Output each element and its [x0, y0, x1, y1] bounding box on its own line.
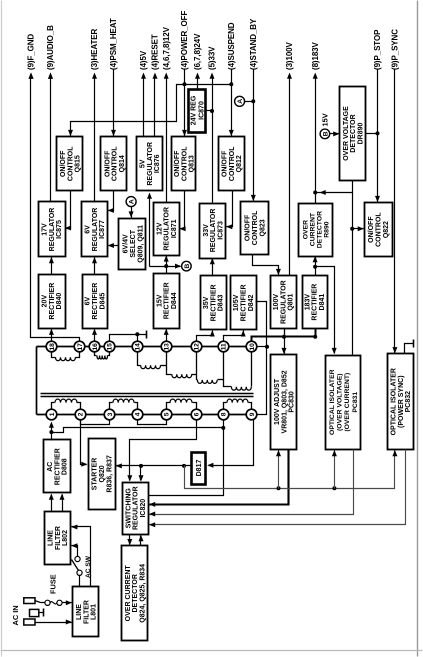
- svg-text:DETECTOR: DETECTOR: [350, 114, 357, 152]
- svg-text:Q824, Q825, R834: Q824, Q825, R834: [139, 564, 146, 623]
- detector Q824 Q825: [122, 546, 148, 641]
- svg-text:D808: D808: [62, 458, 69, 475]
- rectifier D843: [201, 276, 227, 330]
- regulator IC870: [189, 90, 206, 133]
- svg-text:RECTIFIER: RECTIFIER: [312, 284, 319, 321]
- wire node to IC820 right: [140, 466, 142, 481]
- net label (3)HEATER: [90, 29, 99, 79]
- svg-text:IC873: IC873: [217, 221, 224, 240]
- fuse F801: [35, 601, 45, 603]
- svg-text:(3)100V: (3)100V: [285, 41, 294, 70]
- svg-text:17: 17: [77, 343, 84, 351]
- svg-text:LINE: LINE: [48, 530, 55, 546]
- svg-text:(4)POWER_OFF: (4)POWER_OFF: [180, 11, 189, 70]
- wire D845 to IC877: [94, 258, 96, 275]
- rectifier D845: [83, 275, 108, 329]
- wire 100V to PC830: [284, 337, 286, 354]
- adjuster PC830: [271, 355, 297, 450]
- wire P_SYNC to PC832: [394, 69, 396, 354]
- svg-text:STARTER: STARTER: [91, 458, 98, 491]
- svg-text:CURRENT: CURRENT: [309, 212, 316, 246]
- svg-text:REGULATOR: REGULATOR: [280, 280, 287, 324]
- svg-text:33V: 33V: [203, 224, 210, 237]
- wire IC877 HEATER: [94, 75, 96, 203]
- svg-text:OVER: OVER: [302, 220, 309, 239]
- svg-text:Q820: Q820: [99, 465, 106, 482]
- wire L802 to D808 a: [51, 495, 53, 512]
- svg-text:IC820: IC820: [140, 499, 147, 518]
- svg-text:PC831: PC831: [352, 392, 359, 413]
- svg-text:(4)PSM_HEAT: (4)PSM_HEAT: [109, 18, 118, 70]
- svg-text:35V: 35V: [203, 296, 210, 309]
- AC plug blade 1: [24, 598, 35, 604]
- svg-text:ON/OFF: ON/OFF: [60, 150, 67, 177]
- svg-text:15V: 15V: [156, 294, 163, 307]
- svg-text:CONTROL: CONTROL: [229, 146, 236, 181]
- svg-text:D841: D841: [319, 294, 326, 311]
- svg-text:CONTROL: CONTROL: [252, 210, 259, 245]
- svg-text:(6,7,8)24V: (6,7,8)24V: [193, 33, 202, 70]
- wire Q823 to Q801: [253, 255, 279, 275]
- svg-text:16: 16: [92, 343, 99, 351]
- wire Q814 to IC877: [109, 191, 114, 211]
- rectifier D808: [44, 440, 71, 493]
- wire F_GND to pin17: [31, 75, 80, 342]
- svg-text:VR801, Q803, D852: VR801, Q803, D852: [281, 370, 288, 433]
- wire 33V out: [212, 75, 214, 203]
- svg-text:RECTIFIER: RECTIFIER: [92, 283, 99, 320]
- wire pins 9-10 tie: [256, 302, 267, 415]
- svg-text:(9)P_STOP: (9)P_STOP: [373, 29, 382, 70]
- wire pin11 to D842: [224, 331, 244, 342]
- svg-text:IC870: IC870: [198, 101, 205, 120]
- regulator IC871: [154, 203, 180, 256]
- svg-text:(OVER CURRENT): (OVER CURRENT): [344, 373, 351, 432]
- svg-text:(4)STAND_BY: (4)STAND_BY: [249, 18, 258, 70]
- svg-text:ON/OFF: ON/OFF: [174, 150, 181, 177]
- transformer pin 10: [246, 341, 257, 352]
- wire pin18 to D840: [51, 330, 53, 342]
- wire AC SW to L802: [72, 546, 78, 557]
- wire Q815 to IC875: [66, 191, 71, 229]
- svg-text:FUSE: FUSE: [49, 574, 58, 594]
- svg-text:REGULATOR: REGULATOR: [133, 486, 140, 530]
- svg-text:D817: D817: [196, 460, 203, 477]
- svg-text:PC830: PC830: [289, 391, 296, 413]
- svg-text:6V/4V: 6V/4V: [123, 234, 130, 253]
- transformer pin 11: [218, 341, 229, 352]
- svg-text:AC IN: AC IN: [11, 605, 20, 625]
- wire fuse to L801: [63, 602, 72, 604]
- wire RESET out: [154, 75, 156, 137]
- wire D844 to IC871: [166, 256, 168, 274]
- winding 11-10: [224, 353, 232, 387]
- wire R890 183V out: [315, 75, 317, 204]
- svg-text:20V: 20V: [42, 295, 49, 308]
- wire L801 to AC SW: [79, 576, 81, 587]
- svg-text:ON/OFF: ON/OFF: [104, 150, 111, 177]
- selector Q809 Q811: [119, 219, 146, 270]
- svg-text:OVER CURRENT: OVER CURRENT: [125, 565, 132, 622]
- net label (3)100V: [285, 41, 294, 78]
- svg-text:REGULATOR: REGULATOR: [92, 208, 99, 252]
- svg-text:L802: L802: [62, 530, 69, 546]
- winding 18-17: [52, 353, 56, 358]
- wire PSM_HEAT to Q814: [113, 69, 115, 137]
- svg-text:R836, R837: R836, R837: [107, 455, 114, 492]
- regulator IC876: [137, 137, 163, 191]
- control Q813: [172, 137, 196, 191]
- wire POWER_OFF to Q813: [184, 69, 186, 137]
- svg-text:1: 1: [49, 412, 56, 416]
- svg-text:13: 13: [164, 343, 171, 351]
- transformer pin 12: [191, 341, 202, 352]
- transformer core: [41, 396, 254, 398]
- svg-text:CONTROL: CONTROL: [375, 212, 382, 247]
- isolator PC831: [326, 356, 361, 450]
- svg-text:LINE: LINE: [76, 604, 83, 620]
- svg-text:Q812: Q812: [236, 155, 243, 172]
- net label (4)PSM_HEAT: [109, 18, 118, 70]
- svg-text:6V: 6V: [85, 296, 92, 305]
- svg-text:(5)33V: (5)33V: [208, 46, 217, 70]
- net label (4)SUSPEND: [227, 22, 236, 70]
- wire return to PC831: [334, 451, 336, 489]
- wire Q815 control feed: [71, 85, 232, 137]
- net label (9)F_GND: [27, 34, 36, 79]
- wire IC870 24V out: [197, 75, 199, 89]
- control Q822: [365, 203, 393, 257]
- svg-text:Q814: Q814: [119, 155, 126, 172]
- wire D841 to R890: [315, 257, 317, 276]
- wire Q801 100V out: [289, 75, 291, 276]
- svg-text:(POWER SYNC): (POWER SYNC): [398, 375, 405, 428]
- svg-text:OPTICAL ISOLATER: OPTICAL ISOLATER: [329, 369, 336, 435]
- wire 12V out: [166, 75, 168, 203]
- svg-text:(9)P_SYNC: (9)P_SYNC: [391, 29, 400, 70]
- net label (4)STAND_BY: [249, 18, 258, 70]
- wire L801 to L802: [72, 527, 91, 587]
- wire P_STOP to Q822: [377, 69, 379, 203]
- svg-text:SELECT: SELECT: [130, 229, 137, 257]
- svg-text:D840: D840: [56, 293, 63, 310]
- svg-text:ON/OFF: ON/OFF: [368, 216, 375, 243]
- wire OCDET to IC820: [140, 536, 142, 546]
- rectifier D842: [231, 276, 257, 330]
- svg-text:Q815: Q815: [75, 155, 82, 172]
- svg-text:DETECTOR: DETECTOR: [316, 211, 323, 248]
- svg-text:100V ADJUST: 100V ADJUST: [274, 378, 281, 425]
- wire blade3 to L801: [35, 622, 72, 624]
- svg-text:REGULATOR: REGULATOR: [49, 208, 56, 252]
- svg-text:17V: 17V: [42, 223, 49, 236]
- net label (9)P_STOP: [373, 29, 382, 70]
- transformer pin 16: [89, 341, 100, 352]
- detector DR890: [340, 87, 366, 181]
- rectifier D840: [39, 275, 66, 329]
- winding 1-2: [52, 403, 55, 410]
- svg-text:REGULATOR: REGULATOR: [210, 209, 217, 253]
- svg-text:D843: D843: [218, 294, 225, 311]
- svg-text:D844: D844: [171, 292, 178, 309]
- svg-text:L801: L801: [91, 604, 98, 620]
- wire 5V out: [143, 75, 145, 137]
- svg-text:(4,6,7,8)12V: (4,6,7,8)12V: [162, 26, 171, 70]
- svg-text:ON/OFF: ON/OFF: [245, 214, 252, 241]
- svg-text:105V: 105V: [233, 294, 240, 311]
- svg-text:(4)RESET: (4)RESET: [151, 34, 160, 70]
- transformer pin 18: [46, 341, 57, 352]
- svg-text:OPTICAL ISOLATER: OPTICAL ISOLATER: [391, 368, 398, 435]
- svg-text:RECTIFIER: RECTIFIER: [49, 283, 56, 320]
- svg-text:IC875: IC875: [56, 220, 63, 239]
- svg-text:10: 10: [249, 343, 256, 351]
- winding 5-6: [167, 403, 171, 410]
- net label (5)33V: [208, 46, 217, 79]
- svg-text:12: 12: [194, 343, 201, 351]
- net label (4,6,7,8)12V: [162, 26, 171, 78]
- wire common return: [185, 451, 395, 489]
- detector R890: [299, 204, 333, 257]
- winding 16-15: [95, 353, 97, 356]
- wire pin12 to D843: [197, 331, 213, 342]
- svg-text:11: 11: [221, 343, 228, 350]
- winding 13-12: [167, 353, 172, 375]
- svg-text:IC877: IC877: [99, 220, 106, 239]
- wire D843 to IC873: [212, 259, 214, 277]
- wire pin6 to IC820: [130, 420, 197, 481]
- svg-text:Q809, Q811: Q809, Q811: [137, 225, 144, 263]
- wire D817 to pin9: [209, 420, 254, 466]
- regulator IC873: [200, 204, 226, 259]
- wire pin16 to D845: [94, 330, 96, 342]
- node B 15V to DR890: [320, 129, 330, 139]
- wire 183V branch to PC831: [316, 267, 335, 354]
- control Q815: [57, 137, 83, 191]
- svg-text:4: 4: [135, 412, 142, 416]
- terminal PC832 sync: [405, 344, 414, 354]
- svg-text:18: 18: [49, 343, 56, 351]
- svg-text:14: 14: [135, 343, 142, 351]
- wire DR890 crowbar net: [316, 193, 353, 355]
- wire Q812 to IC873: [227, 191, 233, 227]
- wire return to PC830: [278, 451, 280, 489]
- svg-text:15V: 15V: [321, 113, 330, 126]
- transformer pin 15: [104, 341, 115, 352]
- svg-text:(8)183V: (8)183V: [311, 41, 320, 70]
- svg-text:B: B: [184, 264, 191, 269]
- svg-text:8: 8: [221, 412, 228, 416]
- net label (9)P_SYNC: [391, 29, 400, 70]
- transformer pin 3: [104, 409, 115, 420]
- svg-text:12V: 12V: [156, 222, 163, 235]
- svg-text:REGULATOR: REGULATOR: [164, 207, 171, 251]
- svg-text:CONTROL: CONTROL: [67, 146, 74, 181]
- transformer pin 17: [74, 341, 85, 352]
- svg-text:183V: 183V: [304, 294, 311, 311]
- wire IC875 AUDIO_B: [50, 75, 52, 203]
- svg-text:DR890: DR890: [357, 123, 364, 145]
- rectifier D844: [154, 274, 180, 329]
- svg-text:D845: D845: [99, 293, 106, 310]
- svg-text:RECTIFIER: RECTIFIER: [164, 282, 171, 319]
- svg-text:(9)AUDIO_B: (9)AUDIO_B: [46, 25, 55, 70]
- regulator Q801: [271, 276, 297, 329]
- svg-text:(9)F_GND: (9)F_GND: [27, 34, 36, 70]
- filter L801: [73, 587, 99, 637]
- svg-text:100V: 100V: [273, 294, 280, 311]
- wire IC820 to OCDET: [129, 535, 131, 545]
- control Q823: [241, 202, 269, 255]
- svg-text:R890: R890: [323, 221, 330, 237]
- net label (4)RESET: [151, 34, 160, 79]
- transformer pin 5: [161, 409, 172, 420]
- svg-text:6V: 6V: [85, 225, 92, 234]
- regulator IC875: [39, 202, 66, 257]
- svg-text:REGULATOR: REGULATOR: [147, 142, 154, 186]
- svg-text:Q823: Q823: [259, 219, 266, 236]
- page edge lines: [417, 1, 419, 657]
- AC plug blade 3: [24, 619, 35, 625]
- transformer pin 4: [132, 409, 143, 420]
- wire 33V to IC870: [206, 110, 213, 112]
- wire SELECT to IC877: [109, 245, 119, 247]
- svg-text:3: 3: [107, 412, 114, 416]
- svg-text:FILTER: FILTER: [83, 600, 90, 624]
- transformer top link wire: [36, 347, 38, 415]
- transformer pin 14: [132, 341, 143, 352]
- wire pin2 to starter: [81, 420, 87, 465]
- svg-text:A: A: [237, 99, 244, 104]
- AC plug blade 2: [30, 609, 39, 616]
- wire pins 15-14 chassis: [110, 335, 147, 342]
- link pin2-pin3: [81, 420, 110, 425]
- svg-text:(3)HEATER: (3)HEATER: [90, 29, 99, 70]
- svg-text:B: B: [322, 131, 329, 136]
- svg-text:AC: AC: [47, 462, 54, 472]
- svg-text:PC832: PC832: [405, 391, 412, 413]
- wire pin8 to IC820: [149, 420, 224, 496]
- transformer pin 2: [75, 409, 86, 420]
- net label (4)5V: [139, 50, 148, 79]
- wire SUSPEND to Q812: [231, 69, 233, 137]
- svg-text:6: 6: [194, 412, 201, 416]
- svg-text:RECTIFIER: RECTIFIER: [241, 284, 248, 321]
- svg-text:D842: D842: [248, 294, 255, 311]
- wire Q813 to IC871: [180, 191, 185, 229]
- control Q812: [219, 137, 245, 191]
- starter Q820: [89, 439, 116, 510]
- switch AC SW: [77, 570, 82, 575]
- net label (8)183V: [311, 41, 320, 78]
- wire net to Q822: [353, 228, 364, 230]
- isolator PC832: [388, 354, 414, 450]
- svg-text:IC876: IC876: [154, 154, 161, 173]
- svg-text:15: 15: [107, 343, 114, 351]
- rectifier D841: [303, 276, 328, 329]
- wire starter-D817 feed: [117, 465, 192, 467]
- svg-text:Q822: Q822: [383, 221, 390, 238]
- svg-text:9: 9: [249, 412, 256, 416]
- transformer pin 1: [46, 409, 57, 420]
- ground prong bar: [39, 612, 44, 614]
- svg-text:SWITCHING: SWITCHING: [125, 488, 132, 529]
- winding 8-9: [224, 403, 227, 410]
- regulator IC877: [82, 202, 108, 257]
- wire feedback PC832: [150, 450, 406, 525]
- wire L802 to D808 b: [62, 495, 64, 512]
- svg-text:IC871: IC871: [171, 219, 178, 238]
- net label (9)AUDIO_B: [46, 25, 55, 79]
- svg-text:OVER VOLTAGE: OVER VOLTAGE: [343, 106, 350, 161]
- wire DR890 to P_STOP: [366, 133, 378, 135]
- diode D817: [192, 453, 206, 485]
- net label (6,7,8)24V: [193, 33, 202, 79]
- svg-text:(4)5V: (4)5V: [139, 50, 148, 70]
- wire node to pin8 line: [52, 428, 224, 433]
- svg-text:CONTROL: CONTROL: [112, 146, 119, 181]
- wire 15V branch: [150, 266, 181, 268]
- svg-text:RECTIFIER: RECTIFIER: [54, 448, 61, 485]
- wire STAND_BY to Q823: [253, 69, 255, 201]
- node A2 on STAND_BY: [245, 101, 254, 103]
- filter L802: [45, 512, 71, 565]
- transformer pin 6: [191, 409, 202, 420]
- winding 12-11: [197, 353, 198, 380]
- wire pin13 to D844: [166, 330, 168, 342]
- svg-text:(4)SUSPEND: (4)SUSPEND: [227, 22, 236, 70]
- transformer pin 13: [161, 341, 172, 352]
- svg-text:FILTER: FILTER: [55, 526, 62, 550]
- node A to SELECT: [126, 197, 136, 207]
- svg-text:5V: 5V: [140, 159, 147, 168]
- wire D808 to pin1: [51, 425, 53, 441]
- svg-text:24V REG: 24V REG: [191, 95, 198, 125]
- svg-text:A: A: [129, 199, 136, 204]
- regulator IC820: [123, 483, 149, 535]
- transformer pin 8: [218, 409, 229, 420]
- link pin4-pin5: [138, 420, 167, 425]
- net label (4)POWER_OFF: [180, 11, 189, 70]
- svg-text:(OVER VOLTAGE): (OVER VOLTAGE): [337, 373, 344, 431]
- transformer secondary rail: [37, 346, 252, 348]
- svg-text:Q813: Q813: [189, 155, 196, 172]
- svg-text:5: 5: [164, 412, 171, 416]
- transformer pin 9: [246, 409, 257, 420]
- wire feedback PC831: [150, 450, 354, 515]
- wire D840 to IC875: [51, 258, 53, 275]
- control Q814: [101, 137, 127, 191]
- svg-text:ON/OFF: ON/OFF: [222, 150, 229, 177]
- svg-text:CONTROL: CONTROL: [181, 146, 188, 181]
- wire feedback 100V bold: [150, 450, 289, 505]
- svg-text:Q801: Q801: [288, 293, 295, 310]
- svg-text:2: 2: [77, 412, 84, 416]
- svg-text:RECTIFIER: RECTIFIER: [210, 284, 217, 321]
- wire pin10 100V bold net: [252, 329, 316, 342]
- svg-text:DETECTOR: DETECTOR: [132, 574, 139, 612]
- winding 3-4: [110, 403, 113, 410]
- winding 14-13: [138, 353, 141, 366]
- transformer primary rail: [37, 414, 252, 416]
- node B to branch: [175, 264, 181, 269]
